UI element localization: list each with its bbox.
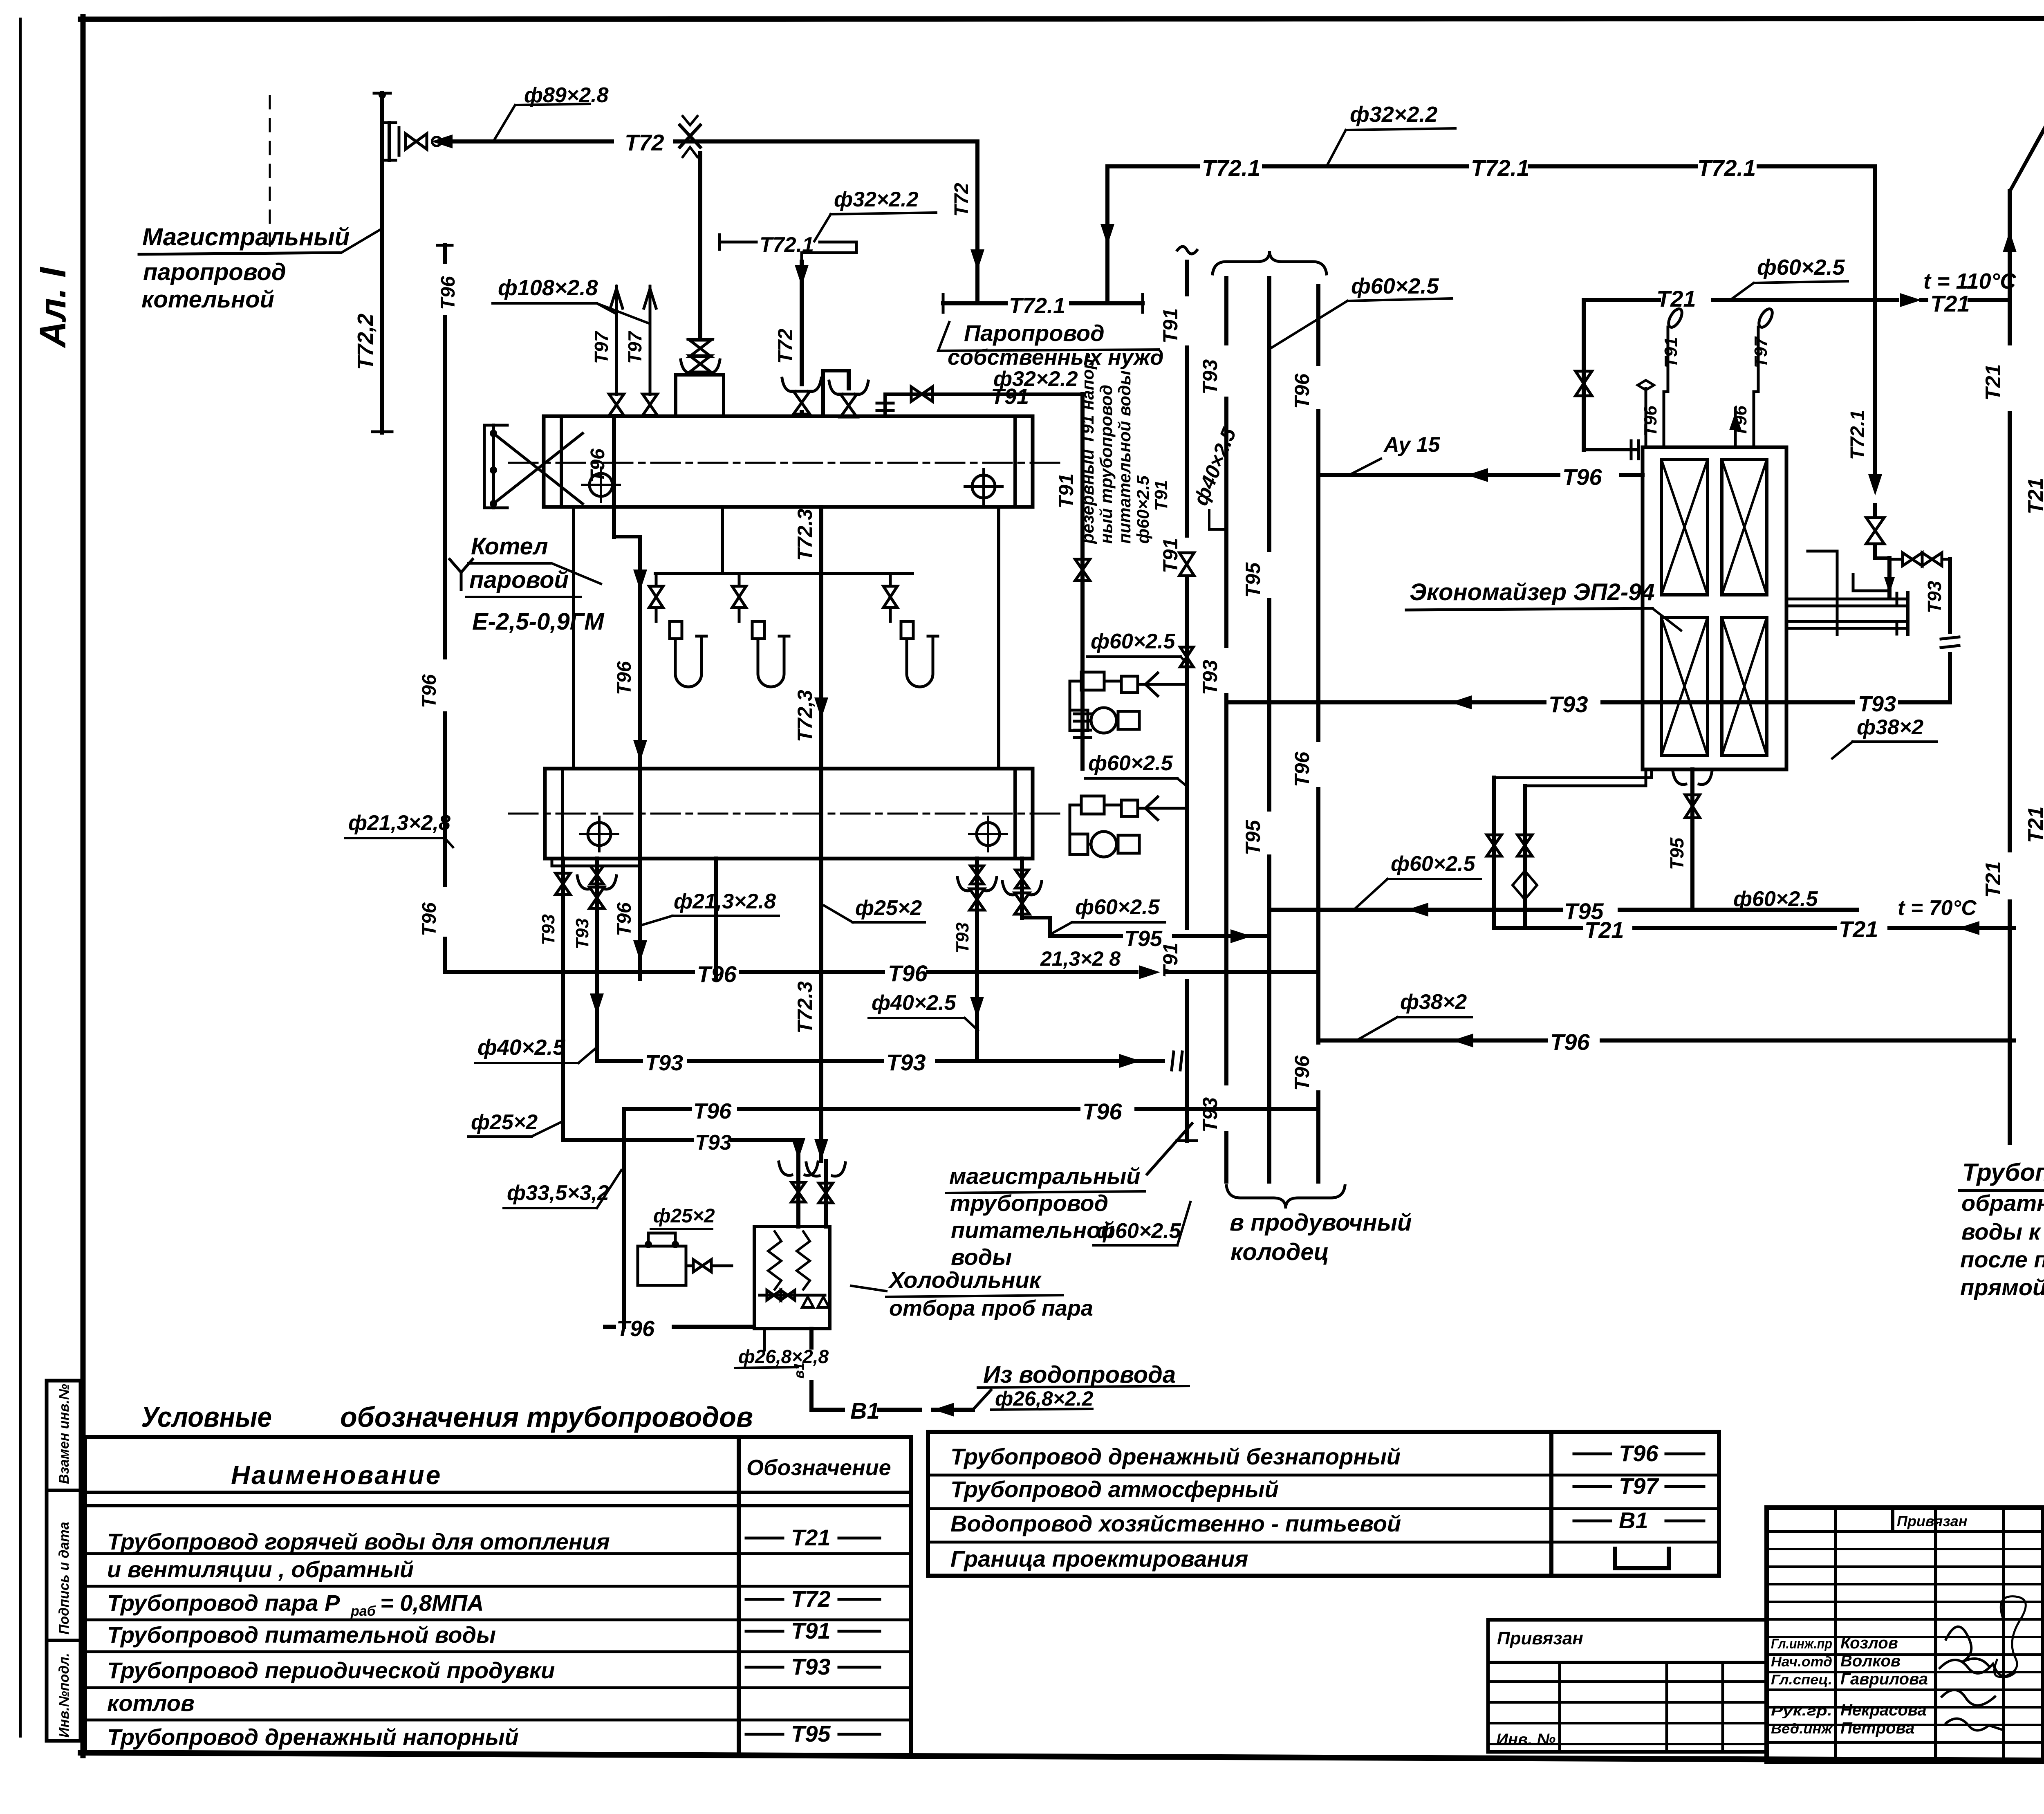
svg-text:Т21: Т21 bbox=[2024, 478, 2044, 514]
svg-text:питательной: питательной bbox=[951, 1217, 1115, 1243]
svg-text:ф60×2.5: ф60×2.5 bbox=[1757, 255, 1845, 280]
svg-text:ф60×2.5: ф60×2.5 bbox=[1096, 1219, 1181, 1243]
svg-text:Т96: Т96 bbox=[1641, 406, 1661, 437]
svg-text:ф38×2: ф38×2 bbox=[1400, 990, 1467, 1014]
svg-text:ф60×2.5: ф60×2.5 bbox=[1075, 895, 1160, 919]
svg-text:Некрасова: Некрасова bbox=[1840, 1701, 1927, 1719]
svg-text:Трубопровод питательной воды: Трубопровод питательной воды bbox=[107, 1622, 496, 1648]
svg-text:ф108×2.8: ф108×2.8 bbox=[498, 276, 598, 300]
svg-text:Т21: Т21 bbox=[1930, 291, 1970, 316]
svg-text:ф25×2: ф25×2 bbox=[855, 896, 922, 920]
svg-text:Петрова: Петрова bbox=[1840, 1719, 1914, 1737]
svg-text:Т96: Т96 bbox=[1291, 751, 1313, 787]
svg-text:Т72.3: Т72.3 bbox=[793, 509, 816, 561]
svg-text:Т96: Т96 bbox=[419, 902, 440, 936]
svg-text:Подпись и дата: Подпись и дата bbox=[56, 1522, 72, 1635]
svg-text:магистральный: магистральный bbox=[949, 1163, 1141, 1189]
svg-text:Т93: Т93 bbox=[1549, 691, 1588, 717]
svg-text:Трубопровод: Трубопровод bbox=[1962, 1159, 2044, 1186]
svg-text:ф40×2.5: ф40×2.5 bbox=[872, 991, 957, 1015]
svg-text:Т72: Т72 bbox=[625, 130, 664, 155]
svg-text:Граница проектирования: Граница проектирования bbox=[950, 1546, 1248, 1572]
svg-text:Вед.инж: Вед.инж bbox=[1771, 1721, 1833, 1737]
svg-text:ф32×2.2: ф32×2.2 bbox=[1350, 102, 1437, 127]
svg-text:паропровод: паропровод bbox=[143, 259, 286, 285]
svg-text:Т93: Т93 bbox=[791, 1654, 831, 1679]
svg-text:Т96: Т96 bbox=[437, 276, 459, 310]
svg-text:Т96: Т96 bbox=[693, 1099, 732, 1123]
svg-text:отбора проб пара: отбора проб пара bbox=[889, 1296, 1093, 1321]
svg-text:Т96: Т96 bbox=[1619, 1440, 1659, 1466]
svg-text:Т96: Т96 bbox=[697, 961, 737, 987]
svg-text:Условные: Условные bbox=[141, 1401, 272, 1433]
svg-text:Т72: Т72 bbox=[951, 183, 973, 217]
svg-text:Инв. №: Инв. № bbox=[1496, 1731, 1555, 1749]
svg-text:Рук.гр.: Рук.гр. bbox=[1771, 1703, 1832, 1719]
svg-text:прямой сетевой воды: прямой сетевой воды bbox=[1960, 1274, 2044, 1300]
svg-text:Т96: Т96 bbox=[1562, 464, 1602, 490]
svg-text:Т95: Т95 bbox=[1242, 820, 1264, 855]
svg-text:котельной: котельной bbox=[141, 286, 274, 313]
svg-text:ф21,3×2,8: ф21,3×2,8 bbox=[348, 811, 450, 835]
svg-text:обратной сетевой: обратной сетевой bbox=[1961, 1190, 2044, 1216]
svg-text:Т96: Т96 bbox=[419, 674, 440, 708]
svg-text:Т91: Т91 bbox=[791, 1618, 831, 1644]
svg-text:Т72: Т72 bbox=[791, 1586, 831, 1612]
svg-text:Взамен инв.№: Взамен инв.№ bbox=[56, 1384, 72, 1484]
svg-text:Т72.1: Т72.1 bbox=[1847, 410, 1869, 460]
svg-text:Т72.1: Т72.1 bbox=[1202, 155, 1260, 181]
svg-text:Т91: Т91 bbox=[1151, 480, 1171, 511]
svg-text:Наименование: Наименование bbox=[231, 1460, 442, 1490]
svg-text:резервный Т91 напор-: резервный Т91 напор- bbox=[1078, 353, 1097, 544]
svg-text:Трубопровод атмосферный: Трубопровод атмосферный bbox=[950, 1476, 1279, 1502]
svg-text:ф60×2.5: ф60×2.5 bbox=[1133, 475, 1152, 544]
svg-text:Трубопровод дренажный напор: Трубопровод дренажный напорный bbox=[107, 1724, 519, 1750]
svg-text:t = 110°С: t = 110°С bbox=[1923, 269, 2016, 294]
svg-text:ф33,5×3,2: ф33,5×3,2 bbox=[507, 1181, 609, 1205]
svg-text:Трубопровод дренажный безнап: Трубопровод дренажный безнапорный bbox=[950, 1444, 1401, 1469]
svg-text:колодец: колодец bbox=[1230, 1239, 1329, 1265]
svg-text:ф32×2.2: ф32×2.2 bbox=[834, 188, 919, 211]
svg-text:Гл.инж.пр: Гл.инж.пр bbox=[1771, 1636, 1832, 1652]
svg-text:Т21: Т21 bbox=[1839, 916, 1878, 942]
svg-text:Т96: Т96 bbox=[616, 1316, 655, 1341]
svg-text:Трубопровод горячей воды дл: Трубопровод горячей воды для отопления bbox=[107, 1529, 610, 1554]
svg-text:ф60×2.5: ф60×2.5 bbox=[1091, 630, 1176, 653]
svg-text:Т72,3: Т72,3 bbox=[793, 690, 816, 742]
svg-text:воды к экономайзерам: воды к экономайзерам bbox=[1961, 1219, 2044, 1244]
svg-text:Т96: Т96 bbox=[614, 902, 635, 936]
svg-text:ф26,8×2,8: ф26,8×2,8 bbox=[738, 1346, 829, 1367]
svg-text:В1: В1 bbox=[1619, 1507, 1648, 1533]
svg-text:в продувочный: в продувочный bbox=[1230, 1209, 1412, 1236]
svg-text:Т97: Т97 bbox=[1751, 336, 1771, 368]
svg-text:Нач.отд: Нач.отд bbox=[1771, 1654, 1832, 1670]
svg-text:котлов: котлов bbox=[107, 1690, 195, 1716]
svg-text:Т93: Т93 bbox=[645, 1051, 683, 1075]
svg-text:Т96: Т96 bbox=[1550, 1029, 1590, 1055]
svg-text:Т97: Т97 bbox=[624, 330, 645, 364]
svg-text:Т93: Т93 bbox=[1199, 359, 1221, 395]
svg-text:Т96: Т96 bbox=[1291, 373, 1313, 409]
svg-text:Т72.1: Т72.1 bbox=[1471, 155, 1529, 181]
svg-text:ф60×2.5: ф60×2.5 bbox=[1391, 852, 1476, 876]
svg-text:Гл.спец.: Гл.спец. bbox=[1771, 1672, 1832, 1688]
svg-text:Т72,2: Т72,2 bbox=[353, 314, 378, 370]
svg-text:воды: воды bbox=[951, 1244, 1012, 1270]
svg-text:= 0,8МПА: = 0,8МПА bbox=[380, 1590, 484, 1616]
svg-text:В1: В1 bbox=[850, 1398, 880, 1424]
svg-text:t = 70°С: t = 70°С bbox=[1898, 896, 1977, 920]
svg-text:Т21: Т21 bbox=[1656, 286, 1696, 312]
svg-text:обозначения трубопроводов: обозначения трубопроводов bbox=[340, 1401, 753, 1433]
svg-text:ф25×2: ф25×2 bbox=[653, 1205, 715, 1227]
svg-text:Т96: Т96 bbox=[1291, 1055, 1313, 1091]
svg-text:Ал. I: Ал. I bbox=[33, 267, 74, 348]
svg-text:Т97: Т97 bbox=[1619, 1473, 1659, 1499]
svg-text:Водопровод хозяйственно - пит: Водопровод хозяйственно - питьевой bbox=[950, 1511, 1401, 1536]
svg-text:Т95: Т95 bbox=[1242, 562, 1264, 598]
svg-text:Т93: Т93 bbox=[1858, 692, 1896, 716]
svg-text:Ау 15: Ау 15 bbox=[1383, 433, 1441, 457]
svg-text:Гаврилова: Гаврилова bbox=[1840, 1670, 1928, 1688]
svg-text:ф38×2: ф38×2 bbox=[1857, 715, 1923, 739]
svg-text:Холодильник: Холодильник bbox=[888, 1267, 1042, 1293]
svg-text:Т72.1: Т72.1 bbox=[1009, 294, 1065, 318]
svg-text:Привязан: Привязан bbox=[1897, 1513, 1968, 1529]
svg-text:ф60×2.5: ф60×2.5 bbox=[1088, 751, 1173, 775]
svg-text:Т97: Т97 bbox=[591, 330, 612, 364]
svg-text:Т96: Т96 bbox=[1730, 406, 1750, 437]
svg-text:Трубопровод пара Р: Трубопровод пара Р bbox=[107, 1590, 340, 1616]
svg-text:Привязан: Привязан bbox=[1497, 1628, 1583, 1648]
svg-text:и вентиляции , обратный: и вентиляции , обратный bbox=[107, 1556, 414, 1582]
svg-text:Т96: Т96 bbox=[888, 960, 928, 986]
svg-text:Е-2,5-0,9ГМ: Е-2,5-0,9ГМ bbox=[472, 608, 605, 635]
svg-text:Т93: Т93 bbox=[886, 1049, 926, 1075]
svg-text:Т21: Т21 bbox=[791, 1525, 831, 1550]
svg-text:Т95: Т95 bbox=[1666, 837, 1688, 870]
svg-text:Т95: Т95 bbox=[1124, 926, 1163, 951]
svg-text:Из водопровода: Из водопровода bbox=[983, 1361, 1176, 1388]
svg-text:Т96: Т96 bbox=[1083, 1099, 1122, 1124]
svg-text:Магистральный: Магистральный bbox=[142, 223, 350, 251]
svg-text:ф40×2.5: ф40×2.5 bbox=[477, 1035, 565, 1060]
svg-text:Т91: Т91 bbox=[1159, 538, 1182, 573]
svg-text:Т93: Т93 bbox=[953, 922, 973, 953]
svg-text:Т93: Т93 bbox=[1924, 581, 1945, 613]
svg-text:Т72: Т72 bbox=[774, 329, 797, 364]
svg-text:ф21,3×2.8: ф21,3×2.8 bbox=[674, 890, 776, 913]
svg-text:Котел: Котел bbox=[471, 533, 548, 560]
svg-text:трубопровод: трубопровод bbox=[950, 1190, 1108, 1216]
svg-text:Т72.1: Т72.1 bbox=[1697, 155, 1756, 181]
svg-text:Т93: Т93 bbox=[1199, 660, 1221, 695]
svg-text:Трубопровод периодической пр: Трубопровод периодической продувки bbox=[107, 1657, 555, 1683]
svg-text:Т91: Т91 bbox=[991, 384, 1029, 409]
svg-text:Т93: Т93 bbox=[538, 914, 558, 945]
svg-text:Т93: Т93 bbox=[572, 918, 592, 949]
svg-text:Паропровод: Паропровод bbox=[964, 320, 1105, 346]
svg-text:Т21: Т21 bbox=[1981, 364, 2005, 401]
svg-text:после подмеса в него: после подмеса в него bbox=[1960, 1247, 2044, 1272]
svg-text:Т93: Т93 bbox=[695, 1131, 732, 1155]
svg-text:Т95: Т95 bbox=[791, 1721, 831, 1747]
svg-text:Т21: Т21 bbox=[2024, 806, 2044, 843]
svg-text:ф26,8×2.2: ф26,8×2.2 bbox=[995, 1387, 1093, 1410]
svg-text:Т72.3: Т72.3 bbox=[793, 981, 816, 1034]
svg-text:Т21: Т21 bbox=[1981, 861, 2005, 898]
svg-text:Т96: Т96 bbox=[587, 448, 609, 482]
svg-text:Т96: Т96 bbox=[614, 661, 635, 695]
svg-text:Инв.№подл.: Инв.№подл. bbox=[56, 1653, 72, 1738]
svg-text:ф60×2.5: ф60×2.5 bbox=[1733, 887, 1818, 911]
svg-text:Т21: Т21 bbox=[1585, 917, 1624, 943]
svg-text:ф25×2: ф25×2 bbox=[471, 1110, 538, 1134]
svg-text:Т91: Т91 bbox=[1055, 473, 1078, 509]
svg-text:21,3×2 8: 21,3×2 8 bbox=[1040, 947, 1121, 970]
svg-text:ф60×2.5: ф60×2.5 bbox=[1351, 274, 1439, 298]
svg-text:раб: раб bbox=[350, 1603, 376, 1619]
svg-text:Т91: Т91 bbox=[1661, 337, 1681, 368]
svg-text:паровой: паровой bbox=[469, 567, 569, 593]
svg-text:Козлов: Козлов bbox=[1840, 1634, 1898, 1652]
svg-text:Обозначение: Обозначение bbox=[746, 1455, 891, 1480]
svg-text:Т91: Т91 bbox=[1159, 308, 1182, 343]
svg-text:Волков: Волков bbox=[1840, 1652, 1901, 1670]
svg-text:питательной воды: питательной воды bbox=[1115, 370, 1134, 544]
svg-text:Т93: Т93 bbox=[1199, 1097, 1221, 1132]
svg-text:Экономайзер ЭП2-94: Экономайзер ЭП2-94 bbox=[1410, 579, 1655, 605]
svg-text:ный трубопровод: ный трубопровод bbox=[1096, 385, 1116, 544]
